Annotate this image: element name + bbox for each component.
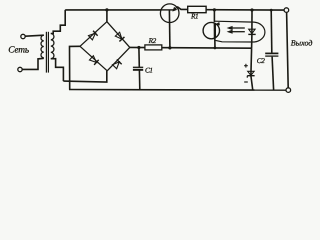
capacitor C1 lead (138, 48, 140, 68)
wire edge top-right (107, 22, 130, 48)
wire edge left-bottom (80, 46, 107, 71)
node top rail / bridge (105, 8, 108, 11)
capacitor C2 lead bottom (272, 57, 274, 90)
wire bridge top vertex drop (106, 10, 108, 22)
wire top rail left section (65, 9, 160, 11)
terminal X2 mains bottom (18, 67, 22, 71)
wire edge bottom-right (107, 47, 130, 70)
capacitor C2 plates (265, 52, 278, 54)
wire bridge right vertex DC+ (130, 46, 252, 49)
capacitor C1 plates (133, 66, 143, 68)
wire collector lead (214, 38, 216, 48)
node led tap (250, 8, 253, 11)
wire edge left-top (80, 22, 107, 47)
transformer T1 primary winding (41, 35, 44, 58)
transformer T1 core (45, 32, 47, 73)
node C1 tap (137, 46, 140, 49)
terminal output plus (284, 8, 289, 13)
wire top rail right section (206, 9, 284, 11)
wire LED to zener (251, 34, 253, 48)
svg-text:С2: С2 (257, 57, 265, 65)
wire (22, 58, 43, 69)
resistor R1 (188, 6, 206, 12)
wire emitter to R1 (177, 7, 187, 10)
wire secondary bottom staircase (51, 59, 64, 81)
diode VD1 upper-left (88, 31, 98, 41)
wire base down (168, 10, 171, 48)
wire (25, 35, 43, 36)
light arrows of U1 (231, 27, 245, 29)
label minus (244, 81, 248, 83)
transformer T1 secondary winding (51, 34, 54, 59)
phototransistor of U1 (203, 22, 219, 38)
transistor VT1 (160, 4, 179, 23)
svg-text:С1: С1 (145, 67, 153, 75)
capacitor C2 lead top (270, 10, 273, 53)
wire secondary top to AC rail (51, 10, 65, 34)
wire AC2 line to bridge bottom (63, 71, 106, 82)
label plus (244, 64, 248, 68)
zener VD5 (248, 71, 254, 75)
terminal output minus (286, 88, 291, 93)
svg-text:R1: R1 (190, 12, 198, 20)
wire bridge left vertex to DC- (70, 46, 81, 89)
node C2 tap (270, 9, 273, 12)
wire output vertical (287, 12, 289, 87)
wire emitter lead from rail (213, 10, 215, 22)
diode VD3 upper-right (115, 32, 125, 42)
svg-text:Выход: Выход (291, 38, 313, 47)
node base tap (168, 46, 171, 49)
LED of U1 (251, 10, 253, 34)
wire zener to rail (251, 76, 253, 90)
resistor R2 (145, 45, 162, 50)
wire bottom rail (69, 89, 286, 92)
optocoupler U1 outline (215, 21, 265, 42)
svg-text:Сеть: Сеть (8, 46, 29, 56)
diode VD2 lower-left (89, 55, 99, 65)
svg-text:R2: R2 (148, 37, 157, 45)
diode VD4 lower-right (112, 59, 122, 69)
node emitter-opto (213, 8, 216, 11)
terminal X1 mains top (21, 34, 25, 38)
